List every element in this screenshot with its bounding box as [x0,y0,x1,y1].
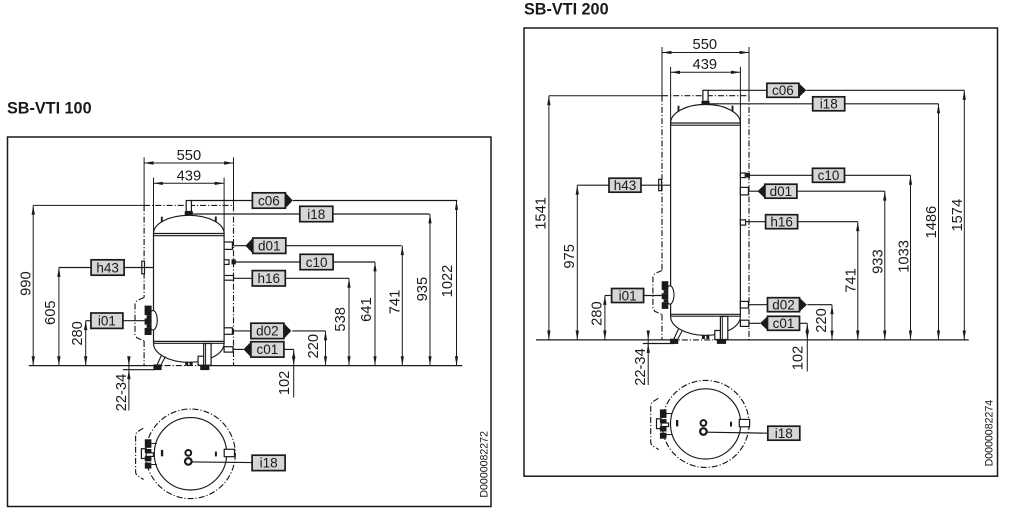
wire leader i18 top [710,103,813,105]
tank insulation jacket outline (dash-dot) [135,205,234,365]
bottom view centre ring lower (i18) [185,458,192,465]
bottom view jacket bulge outline (dash-dot) [136,428,144,479]
dimension 280 (i01 height) [589,296,606,340]
svg-text:990: 990 [19,271,35,296]
svg-text:i18: i18 [260,456,278,471]
wire leader c06 [191,200,252,202]
svg-text:1033: 1033 [897,240,913,273]
bottom view tick right [730,422,732,427]
bottom outlet elbow [715,331,721,340]
dome sensor lug right [215,217,217,223]
bottom view centre ring lower (i18) [700,428,707,435]
dimension 550 [662,37,749,54]
svg-text:102: 102 [790,346,806,371]
floor dash-dot segment under tank [153,365,209,367]
label i18 bottom [252,455,285,470]
bottom view flange pipe to tank [661,423,668,427]
floor lower reference line [123,369,155,371]
svg-text:280: 280 [70,321,86,346]
svg-text:1022: 1022 [440,265,456,298]
label c10 [813,168,845,183]
svg-text:c10: c10 [818,168,840,183]
wire leader h43 [577,184,609,186]
tank dome (top head) [671,104,741,123]
frame border right diagram [524,28,998,476]
svg-text:605: 605 [43,300,59,325]
top pipe c06 fitting [703,90,708,101]
label i01 [91,313,123,329]
svg-text:1574: 1574 [950,199,966,232]
bottom view flange stem [657,419,662,429]
wire leader d01 [232,245,246,247]
label h43 [609,178,641,193]
svg-text:22-34: 22-34 [114,374,130,412]
dome weld seam lines [671,122,741,124]
connection stub c01 [224,347,233,352]
top pipe flange (black) [701,101,709,105]
jacket top connector line to 1541 dim [549,95,662,97]
svg-text:439: 439 [693,57,718,73]
svg-text:c10: c10 [306,255,328,270]
connection stub d01 [740,187,748,195]
connection stub d02 [740,301,748,308]
dimension 1022 [440,201,458,366]
dimension 280 (i01 height) [70,321,87,366]
bottom centre fitting [702,335,705,339]
tank dished bottom [154,343,225,362]
label c06 [252,193,292,209]
tank cylinder shell [153,234,155,344]
svg-text:i18: i18 [775,426,793,441]
top pipe c06 fitting [186,201,191,212]
dome sensor lug left [161,217,163,223]
wire leader h16 [746,221,766,223]
svg-text:D0000082274: D0000082274 [984,400,996,467]
bottom view jacket bulge outline (dash-dot) [651,398,659,449]
label h43 [91,260,124,276]
svg-text:935: 935 [415,277,431,302]
dome weld seam lines [154,233,225,235]
dimension 439 [671,57,741,74]
dimension 220 [814,305,834,340]
connection stub d02 [224,328,232,335]
label d02 [768,298,807,313]
svg-text:d02: d02 [256,324,279,339]
dimension 550 [144,148,233,165]
frame border left diagram [8,137,492,507]
label c01 [244,342,284,357]
dimension 22-34 foot adjustment [114,356,131,411]
tank insulation jacket outline (dash-dot) [653,96,749,340]
bottom view side stub right [224,449,234,456]
sensor c10 (black square) [746,173,750,178]
wire leader c10 [750,174,813,176]
wire leader i01 [605,295,612,297]
flange h43 on tank left [142,261,145,274]
svg-text:i01: i01 [98,314,116,329]
svg-text:i01: i01 [619,288,637,303]
top pipe flange (black) [185,211,193,215]
wire leader c10 [235,261,300,263]
label d01 [758,184,797,199]
drawing number D0000082272 [479,431,491,498]
tank dome (top head) [154,215,225,233]
connection stub h16 [740,220,745,225]
svg-text:i18: i18 [307,207,325,222]
svg-text:SB-VTI 200: SB-VTI 200 [524,1,609,19]
connection stub c01 [740,320,749,326]
sensor line c10 stub [224,260,229,265]
bottom view tick left [161,450,163,456]
label i01 [612,288,644,303]
wire leader d02 [232,330,251,332]
extension lines 550 [143,157,145,205]
svg-text:1486: 1486 [924,206,940,239]
label d01 [245,238,285,254]
svg-text:641: 641 [359,297,375,322]
bottom view tank circle [671,389,741,459]
wire leader i18 top [193,213,300,215]
svg-text:102: 102 [277,371,293,396]
wire leader c01 [233,348,244,350]
bottom weld seam lines [671,313,741,315]
bottom view insulation circle (dash-dot) [662,380,749,467]
label i18 top [300,206,333,222]
svg-text:i18: i18 [820,97,838,112]
dimension 102 [277,349,295,397]
floor lower reference line [643,343,675,345]
extension lines 550 [661,47,663,96]
bottom outlet pipe [204,344,211,366]
wire leader h16 [234,277,253,279]
jacket top connector line to 990 dim [33,204,144,206]
dimension 1033 [897,175,913,340]
connection stub d01 [224,242,232,249]
flange i01 (black blocks) [662,281,669,290]
flange h43 on tank left [659,179,662,190]
svg-text:741: 741 [388,290,404,315]
wire leader i18 bottom view [192,461,252,464]
dimension 935 [415,214,432,366]
bottom view tick left [676,420,678,426]
label i18 top [813,97,845,112]
svg-text:220: 220 [814,308,830,333]
label c01 [760,316,799,331]
svg-text:975: 975 [562,244,578,269]
svg-text:280: 280 [589,301,605,326]
flange i01 collar ellipse [149,311,158,330]
svg-text:538: 538 [333,307,349,332]
bottom view centre ring upper [185,450,191,456]
bottom view tank circle [154,418,226,490]
bottom centre fitting [185,362,188,366]
svg-text:22-34: 22-34 [633,348,649,386]
wire leader c01 [749,322,760,324]
sensor c10 (black square) [232,259,236,264]
floor dash-dot segment under tank [671,339,725,341]
svg-text:741: 741 [844,268,860,293]
bottom view flange black blocks [660,409,667,418]
label d02 [251,323,291,338]
sensor line c10 stub [740,173,745,178]
bottom weld seam lines [154,340,225,342]
svg-text:h43: h43 [614,178,637,193]
label i18 bottom [768,426,800,441]
label c10 [300,254,333,269]
dimension 102 [790,323,809,371]
dimension 741 [844,222,860,340]
svg-text:c06: c06 [258,193,280,208]
svg-text:c01: c01 [773,316,795,331]
flange i01 collar ellipse [666,286,674,304]
wire leader i01 [86,320,91,322]
svg-text:d02: d02 [772,298,795,313]
svg-text:c06: c06 [772,83,794,98]
floor baseline [536,339,671,341]
dimension 933 [871,191,887,340]
wire leader c06 [708,89,767,91]
extension lines 439 [153,178,155,234]
label h16 [766,215,798,230]
bottom view centre ring upper [701,420,707,426]
wire leader h43 [59,267,91,269]
dimension 641 [359,262,376,366]
right foot [199,357,201,365]
bottom view insulation circle (dash-dot) [146,409,236,499]
svg-text:d01: d01 [770,184,793,199]
right foot [716,331,718,339]
left foot [674,329,679,339]
dimension 741 [388,246,404,366]
svg-text:439: 439 [177,169,202,185]
svg-text:d01: d01 [258,239,281,254]
label h16 [252,271,285,286]
bottom view flange pipe to tank [146,453,153,457]
connection stub h16 [224,276,233,281]
svg-text:h43: h43 [96,260,119,275]
bottom view side stub right [739,419,749,426]
svg-text:220: 220 [306,334,322,359]
dome sensor lug left [678,106,680,112]
dimension 1574 [950,90,966,340]
svg-text:h16: h16 [258,271,281,286]
bottom outlet elbow [198,356,204,365]
svg-text:550: 550 [177,148,202,164]
dimension 990 [19,205,35,365]
extension lines 439 [670,67,672,123]
drawing number D0000082274 [984,400,996,467]
svg-text:c01: c01 [257,342,279,357]
bottom view flange black blocks [145,439,152,448]
bottom view flange tie lines [667,413,673,415]
bottom outlet pipe [720,316,727,339]
svg-text:D0000082272: D0000082272 [479,431,491,498]
svg-text:h16: h16 [770,215,793,230]
bottom view tick right [215,452,217,457]
wire leader d02 [748,304,767,306]
left foot [157,355,162,365]
dimension 220 [306,331,327,366]
dimension 605 [43,268,60,366]
svg-text:933: 933 [871,249,887,274]
dimension 1486 [924,104,940,340]
tank cylinder shell [670,123,672,316]
dimension 975 [562,185,579,340]
wire leader d01 [748,190,758,192]
dimension 439 [154,169,225,185]
floor baseline [29,365,154,367]
wire leader i18 bottom view [707,432,768,433]
svg-text:1541: 1541 [533,197,549,230]
dome sensor lug right [732,106,734,112]
dimension 1541 [533,96,550,340]
dimension 22-34 foot adjustment [633,331,650,386]
label c06 [767,83,806,98]
flange i01 (black blocks) [145,306,152,316]
bottom view flange stem [141,449,146,459]
bottom view flange tie lines [151,442,157,444]
svg-text:550: 550 [693,37,718,53]
tank dished bottom [671,316,741,335]
svg-text:SB-VTI 100: SB-VTI 100 [7,100,92,118]
dimension 538 [333,278,350,365]
